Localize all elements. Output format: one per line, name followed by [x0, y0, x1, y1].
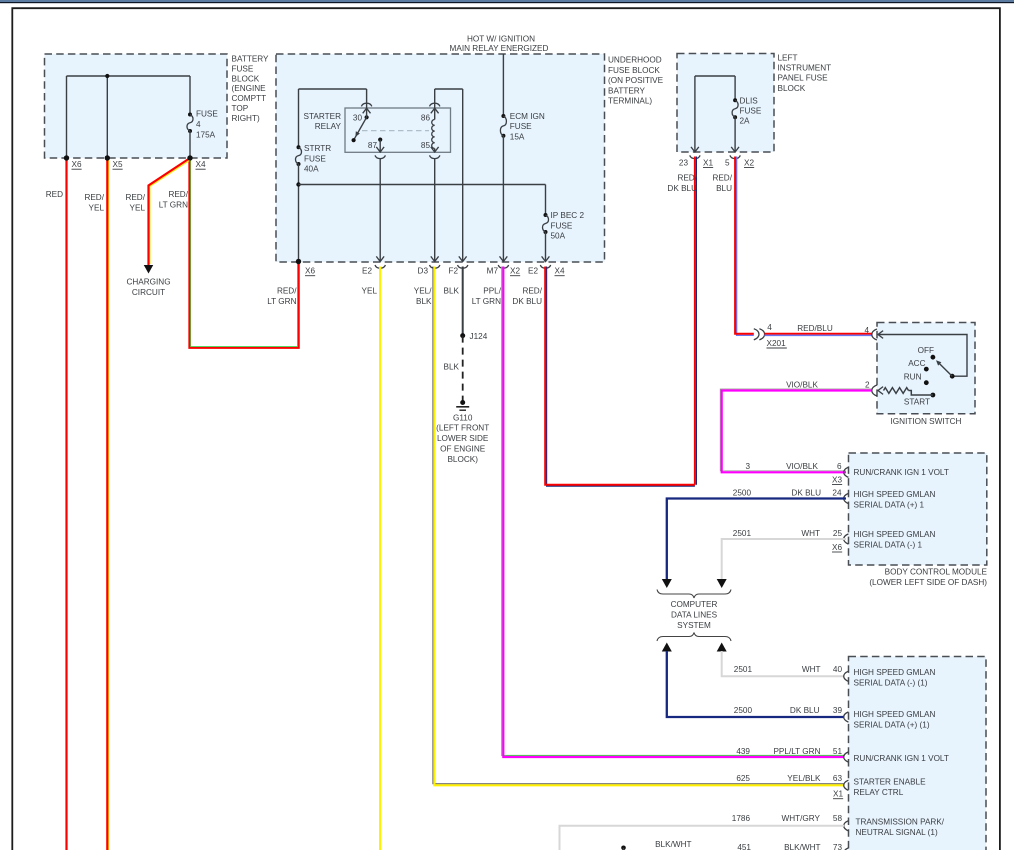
svg-text:2500: 2500 — [733, 488, 752, 497]
svg-text:51: 51 — [833, 747, 843, 756]
svg-text:COMPTT: COMPTT — [232, 94, 267, 103]
svg-text:625: 625 — [736, 774, 750, 783]
svg-text:FUSE: FUSE — [740, 107, 762, 116]
svg-text:PANEL FUSE: PANEL FUSE — [778, 74, 829, 83]
svg-text:39: 39 — [833, 706, 843, 715]
svg-text:LT GRN: LT GRN — [267, 297, 296, 306]
svg-text:2A: 2A — [740, 117, 751, 126]
svg-text:RED/: RED/ — [168, 190, 188, 199]
svg-text:INSTRUMENT: INSTRUMENT — [778, 64, 832, 73]
svg-text:63: 63 — [833, 774, 843, 783]
svg-text:4: 4 — [767, 323, 772, 332]
svg-text:YEL: YEL — [130, 204, 146, 213]
svg-text:DATA LINES: DATA LINES — [671, 611, 718, 620]
svg-text:HIGH SPEED GMLAN: HIGH SPEED GMLAN — [854, 710, 936, 719]
svg-text:(ENGINE: (ENGINE — [232, 84, 267, 93]
svg-text:STARTER: STARTER — [304, 112, 342, 121]
svg-text:HIGH SPEED GMLAN: HIGH SPEED GMLAN — [854, 668, 936, 677]
svg-text:G110: G110 — [453, 414, 473, 423]
svg-text:FUSE: FUSE — [196, 110, 218, 119]
svg-text:X6: X6 — [305, 267, 315, 276]
svg-text:86: 86 — [421, 114, 431, 123]
svg-text:(ON POSITIVE: (ON POSITIVE — [608, 76, 664, 85]
svg-text:YEL: YEL — [89, 204, 105, 213]
svg-text:FUSE: FUSE — [510, 122, 532, 131]
svg-text:ECM IGN: ECM IGN — [510, 112, 545, 121]
svg-text:X2: X2 — [744, 158, 754, 167]
svg-text:STRTR: STRTR — [304, 144, 331, 153]
svg-text:IP BEC 2: IP BEC 2 — [551, 211, 585, 220]
svg-text:(LOWER LEFT SIDE OF DASH): (LOWER LEFT SIDE OF DASH) — [869, 578, 987, 587]
svg-text:DK BLU: DK BLU — [791, 488, 821, 497]
svg-text:HOT W/ IGNITION: HOT W/ IGNITION — [467, 35, 535, 44]
svg-text:4: 4 — [196, 120, 201, 129]
svg-text:WHT: WHT — [802, 665, 821, 674]
svg-text:40A: 40A — [304, 165, 319, 174]
svg-text:X1: X1 — [833, 790, 843, 799]
svg-text:BODY CONTROL MODULE: BODY CONTROL MODULE — [885, 568, 988, 577]
svg-text:RED/BLU: RED/BLU — [797, 324, 833, 333]
svg-text:DLIS: DLIS — [740, 97, 759, 106]
svg-text:YEL: YEL — [362, 287, 378, 296]
svg-text:85: 85 — [421, 141, 431, 150]
svg-text:X6: X6 — [832, 543, 842, 552]
svg-text:BLK/WHT: BLK/WHT — [655, 840, 691, 849]
svg-text:CIRCUIT: CIRCUIT — [132, 288, 165, 297]
svg-text:15A: 15A — [510, 132, 525, 141]
svg-text:DK BLU: DK BLU — [512, 297, 542, 306]
svg-text:SERIAL DATA (+) (1): SERIAL DATA (+) (1) — [854, 720, 930, 729]
svg-text:BLK: BLK — [444, 363, 460, 372]
svg-text:RELAY CTRL: RELAY CTRL — [854, 788, 904, 797]
svg-text:DK BLU: DK BLU — [790, 706, 820, 715]
svg-text:M7: M7 — [487, 267, 499, 276]
svg-text:X5: X5 — [113, 160, 123, 169]
svg-text:X1: X1 — [703, 158, 713, 167]
svg-text:RUN/CRANK IGN 1 VOLT: RUN/CRANK IGN 1 VOLT — [854, 468, 949, 477]
svg-text:23: 23 — [679, 158, 689, 167]
svg-text:HIGH SPEED GMLAN: HIGH SPEED GMLAN — [854, 530, 936, 539]
svg-text:X3: X3 — [832, 475, 842, 484]
svg-text:439: 439 — [736, 747, 750, 756]
svg-text:HIGH SPEED GMLAN: HIGH SPEED GMLAN — [854, 490, 936, 499]
svg-text:IGNITION SWITCH: IGNITION SWITCH — [891, 417, 962, 426]
svg-text:87: 87 — [368, 141, 378, 150]
svg-text:BLOCK): BLOCK) — [447, 455, 478, 464]
svg-text:(LEFT FRONT: (LEFT FRONT — [436, 424, 489, 433]
svg-text:F2: F2 — [448, 267, 458, 276]
svg-text:BLK: BLK — [444, 287, 460, 296]
svg-text:TERMINAL): TERMINAL) — [608, 97, 652, 106]
svg-text:451: 451 — [737, 843, 751, 850]
svg-text:STARTER ENABLE: STARTER ENABLE — [854, 777, 927, 786]
svg-text:YEL/: YEL/ — [414, 287, 432, 296]
svg-text:RUN/CRANK IGN 1 VOLT: RUN/CRANK IGN 1 VOLT — [854, 754, 949, 763]
svg-text:3: 3 — [745, 462, 750, 471]
svg-text:YEL/BLK: YEL/BLK — [787, 774, 821, 783]
svg-text:WHT: WHT — [801, 529, 820, 538]
svg-text:RUN: RUN — [904, 373, 922, 382]
svg-text:RIGHT): RIGHT) — [232, 114, 260, 123]
svg-text:50A: 50A — [551, 232, 566, 241]
svg-text:DK BLU: DK BLU — [667, 184, 697, 193]
svg-text:X201: X201 — [767, 339, 787, 348]
svg-text:2501: 2501 — [734, 665, 753, 674]
svg-text:2: 2 — [865, 380, 870, 389]
svg-text:MAIN RELAY ENERGIZED: MAIN RELAY ENERGIZED — [450, 44, 549, 53]
svg-text:D3: D3 — [418, 267, 429, 276]
svg-text:40: 40 — [833, 665, 843, 674]
svg-text:VIO/BLK: VIO/BLK — [786, 380, 818, 389]
svg-text:FUSE BLOCK: FUSE BLOCK — [608, 66, 660, 75]
svg-text:OF ENGINE: OF ENGINE — [440, 445, 486, 454]
svg-text:SERIAL DATA (-) (1): SERIAL DATA (-) (1) — [854, 679, 928, 688]
svg-text:RED/: RED/ — [125, 193, 145, 202]
svg-text:X2: X2 — [510, 267, 520, 276]
svg-text:LOWER SIDE: LOWER SIDE — [437, 434, 489, 443]
svg-text:LT GRN: LT GRN — [159, 201, 188, 210]
svg-text:RED/: RED/ — [522, 287, 542, 296]
svg-text:TRANSMISSION PARK/: TRANSMISSION PARK/ — [856, 817, 945, 826]
svg-text:SERIAL DATA (-) 1: SERIAL DATA (-) 1 — [854, 541, 923, 550]
svg-text:BLK/WHT: BLK/WHT — [784, 843, 820, 850]
svg-text:2501: 2501 — [733, 529, 752, 538]
svg-text:25: 25 — [833, 529, 843, 538]
svg-text:WHT/GRY: WHT/GRY — [781, 814, 820, 823]
svg-text:RED/: RED/ — [677, 174, 697, 183]
svg-text:58: 58 — [833, 814, 843, 823]
svg-text:24: 24 — [832, 488, 842, 497]
svg-text:UNDERHOOD: UNDERHOOD — [608, 56, 662, 65]
svg-text:LEFT: LEFT — [778, 54, 798, 63]
svg-text:X6: X6 — [72, 160, 82, 169]
svg-text:FUSE: FUSE — [551, 221, 573, 230]
svg-text:E2: E2 — [528, 267, 538, 276]
svg-text:1786: 1786 — [732, 814, 751, 823]
svg-text:COMPUTER: COMPUTER — [671, 600, 718, 609]
svg-text:LT GRN: LT GRN — [472, 297, 501, 306]
svg-text:BATTERY: BATTERY — [608, 86, 646, 95]
svg-text:BLOCK: BLOCK — [232, 74, 260, 83]
svg-text:2500: 2500 — [734, 706, 753, 715]
svg-text:6: 6 — [837, 462, 842, 471]
svg-text:BLOCK: BLOCK — [778, 84, 806, 93]
svg-text:4: 4 — [864, 326, 869, 335]
svg-text:RELAY: RELAY — [315, 122, 342, 131]
svg-text:PPL/: PPL/ — [483, 287, 501, 296]
svg-text:VIO/BLK: VIO/BLK — [786, 462, 818, 471]
svg-text:175A: 175A — [196, 131, 216, 140]
svg-text:START: START — [904, 397, 930, 406]
svg-text:TOP: TOP — [232, 104, 249, 113]
svg-text:BLK: BLK — [416, 297, 432, 306]
svg-text:J124: J124 — [470, 332, 488, 341]
svg-text:CHARGING: CHARGING — [126, 278, 170, 287]
svg-text:30: 30 — [353, 114, 363, 123]
svg-text:X4: X4 — [555, 267, 565, 276]
svg-text:SYSTEM: SYSTEM — [677, 621, 711, 630]
svg-text:OFF: OFF — [918, 346, 934, 355]
svg-text:E2: E2 — [362, 267, 372, 276]
svg-text:RED/: RED/ — [277, 287, 297, 296]
svg-text:5: 5 — [725, 158, 730, 167]
svg-text:NEUTRAL SIGNAL (1): NEUTRAL SIGNAL (1) — [856, 828, 938, 837]
svg-text:RED/: RED/ — [84, 193, 104, 202]
svg-text:FUSE: FUSE — [232, 64, 254, 73]
svg-text:RED: RED — [46, 190, 63, 199]
svg-text:BLU: BLU — [716, 184, 732, 193]
svg-text:SERIAL DATA (+) 1: SERIAL DATA (+) 1 — [854, 500, 925, 509]
svg-text:RED/: RED/ — [712, 174, 732, 183]
svg-text:73: 73 — [833, 843, 843, 850]
svg-text:ACC: ACC — [908, 359, 925, 368]
svg-text:BATTERY: BATTERY — [232, 55, 270, 64]
svg-text:PPL/LT GRN: PPL/LT GRN — [773, 747, 820, 756]
svg-text:X4: X4 — [196, 160, 206, 169]
svg-text:FUSE: FUSE — [304, 154, 326, 163]
